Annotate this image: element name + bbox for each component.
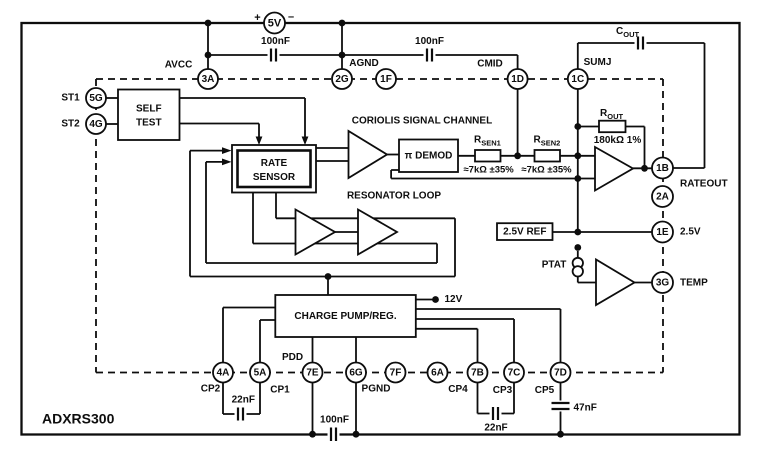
- svg-text:≈7kΩ ±35%: ≈7kΩ ±35%: [521, 164, 572, 175]
- svg-text:7F: 7F: [390, 368, 402, 379]
- terminal 12V: [432, 296, 439, 303]
- wire AGND drop: [341, 23, 343, 70]
- junction ROUT branch: [574, 123, 581, 130]
- wire 1B to riser: [673, 167, 705, 169]
- pin 5A: [250, 363, 270, 383]
- junction ground rail 6G: [353, 431, 360, 438]
- svg-text:6G: 6G: [349, 368, 363, 379]
- block DEMOD: [399, 140, 458, 173]
- pin 3A: [198, 69, 218, 89]
- wire opamp output: [633, 167, 652, 169]
- wire rate sensor bottom right leg: [275, 193, 277, 219]
- pin 1B: [652, 158, 673, 179]
- wire bypass rail: [208, 55, 518, 70]
- svg-text:2G: 2G: [335, 74, 349, 85]
- wire coriolis amp to demod: [387, 154, 399, 156]
- op-amp output stage: [595, 147, 633, 191]
- junction CMID node: [514, 152, 521, 159]
- svg-text:4A: 4A: [217, 368, 230, 379]
- svg-text:3A: 3A: [202, 74, 215, 85]
- wire RATEOUT right riser: [704, 43, 706, 168]
- wire 7B 7C cap loop: [478, 383, 515, 414]
- svg-text:ST1: ST1: [61, 93, 80, 104]
- wire 4A 5A cap loop: [223, 383, 260, 414]
- wire demod feedback stub: [391, 170, 595, 179]
- pin 4G: [86, 114, 106, 134]
- junction opamp output: [641, 165, 648, 172]
- pin 1F: [376, 69, 396, 89]
- capacitor 22nF CP3: [490, 407, 502, 420]
- pin 2A: [652, 186, 673, 207]
- capacitor COUT: [635, 37, 647, 50]
- capacitor 100nF bottom: [328, 428, 340, 442]
- svg-text:1E: 1E: [656, 227, 669, 238]
- junction charge pump feed: [325, 273, 332, 280]
- junction 2.5V node: [574, 229, 581, 236]
- resistor RSEN1: [475, 150, 501, 162]
- pin 4A: [213, 363, 233, 383]
- block SELF TEST: [118, 90, 180, 141]
- svg-text:22nF: 22nF: [484, 423, 507, 434]
- wire rate sensor bottom left leg: [252, 193, 254, 244]
- wire PTAT to temp amp: [578, 251, 596, 283]
- svg-text:+: +: [254, 12, 260, 24]
- wire charge pump to 4A: [223, 308, 275, 363]
- amplifier resonator 2: [358, 210, 397, 255]
- wire 5G to self test: [106, 97, 118, 99]
- svg-text:PTAT: PTAT: [542, 260, 567, 271]
- wire charge pump to 7D: [416, 309, 561, 362]
- wire charge pump feed: [327, 277, 329, 296]
- amplifier coriolis: [349, 131, 388, 178]
- capacitor 22nF CP2-CP1: [235, 408, 247, 421]
- svg-text:CP1: CP1: [270, 385, 290, 396]
- pin 7F: [386, 363, 406, 383]
- wire COUT top: [578, 42, 705, 44]
- wire resonator mid line: [253, 243, 437, 245]
- junction SUMJ node: [574, 152, 581, 159]
- svg-text:TEMP: TEMP: [680, 278, 708, 289]
- wire temp amp output: [635, 282, 653, 284]
- svg-text:CP4: CP4: [448, 384, 468, 395]
- svg-text:SENSOR: SENSOR: [253, 172, 296, 183]
- wire ROUT branch: [578, 127, 645, 169]
- wire into rate sensor upper: [190, 150, 223, 152]
- wire 2.5V REF to 1E: [553, 231, 653, 233]
- wire ST2 path: [179, 124, 259, 138]
- svg-text:PGND: PGND: [362, 384, 391, 395]
- arrow ST2 into rate sensor: [256, 137, 263, 146]
- wire 7E to ground rail: [312, 383, 314, 434]
- svg-text:12V: 12V: [445, 294, 463, 305]
- svg-text:≈7kΩ ±35%: ≈7kΩ ±35%: [463, 164, 514, 175]
- svg-text:ST2: ST2: [61, 119, 80, 130]
- wire CMID drop: [517, 89, 519, 156]
- svg-text:RESONATOR LOOP: RESONATOR LOOP: [347, 191, 441, 202]
- wire AVCC drop: [207, 23, 209, 70]
- svg-text:100nF: 100nF: [320, 415, 349, 426]
- svg-text:–: –: [288, 11, 294, 23]
- wire 12V stub: [416, 299, 433, 301]
- arrow ST1 into rate sensor: [302, 137, 309, 146]
- resistor RSEN2: [535, 150, 561, 162]
- svg-text:PDD: PDD: [282, 352, 303, 363]
- svg-text:7C: 7C: [508, 368, 521, 379]
- wire demod to RSEN1 RSEN2 opamp: [458, 155, 595, 157]
- wire SUMJ column: [577, 89, 579, 233]
- svg-text:5A: 5A: [254, 368, 267, 379]
- pin 6A: [428, 363, 448, 383]
- wire ST1 path: [179, 98, 305, 137]
- amplifier resonator 1: [296, 210, 336, 255]
- junction ground rail 47nF: [557, 431, 564, 438]
- dashed package boundary right: [662, 79, 664, 373]
- wire resonator inner return: [206, 162, 437, 263]
- junction top rail AGND: [339, 20, 346, 27]
- svg-text:100nF: 100nF: [261, 36, 290, 47]
- capacitor C1 100nF: [268, 49, 280, 62]
- svg-text:22nF: 22nF: [232, 395, 255, 406]
- capacitor C2 100nF: [424, 49, 436, 62]
- wire resonator outer return: [190, 151, 455, 277]
- svg-text:CP5: CP5: [535, 385, 555, 396]
- svg-text:7E: 7E: [306, 368, 319, 379]
- wire 7D to ground rail: [560, 383, 562, 434]
- svg-text:π DEMOD: π DEMOD: [405, 151, 453, 162]
- pin 2G: [332, 69, 352, 89]
- block RATE SENSOR: [232, 145, 316, 193]
- svg-text:AGND: AGND: [349, 58, 378, 69]
- svg-text:CP3: CP3: [493, 385, 513, 396]
- pin 7D: [551, 363, 571, 383]
- junction bypass AGND: [339, 52, 346, 59]
- arrow into rate sensor lower: [222, 159, 232, 166]
- svg-text:CHARGE PUMP/REG.: CHARGE PUMP/REG.: [294, 311, 396, 322]
- junction top rail AVCC: [205, 20, 212, 27]
- block 2.5V REF: [497, 223, 553, 240]
- wire charge pump to 7C: [416, 319, 514, 362]
- pin 1E: [652, 222, 673, 243]
- wire charge pump to 7E: [312, 337, 314, 362]
- svg-text:5V: 5V: [268, 18, 282, 30]
- dashed package boundary left: [95, 79, 97, 373]
- pin 7B: [468, 363, 488, 383]
- current source PTAT: [573, 244, 583, 276]
- wire 4G to self test: [106, 123, 118, 125]
- wire rate sensor outputs to coriolis amp: [316, 148, 349, 161]
- svg-text:CORIOLIS SIGNAL CHANNEL: CORIOLIS SIGNAL CHANNEL: [352, 116, 492, 127]
- pin 6G: [346, 363, 366, 383]
- dashed package boundary bottom: [96, 372, 663, 374]
- pin 1C: [568, 69, 588, 89]
- svg-text:ADXRS300: ADXRS300: [42, 411, 115, 427]
- arrow into rate sensor upper: [222, 147, 232, 154]
- svg-text:SUMJ: SUMJ: [584, 57, 612, 68]
- junction ground rail 7E: [309, 431, 316, 438]
- svg-text:AVCC: AVCC: [165, 60, 193, 71]
- svg-text:7B: 7B: [471, 368, 484, 379]
- pin 5G: [86, 88, 106, 108]
- svg-text:6A: 6A: [431, 368, 444, 379]
- amplifier temp: [596, 260, 635, 306]
- svg-text:SELF: SELF: [136, 103, 162, 114]
- svg-text:7D: 7D: [554, 368, 567, 379]
- svg-text:2A: 2A: [656, 192, 669, 203]
- source 5V: [254, 11, 294, 34]
- svg-text:RATE: RATE: [261, 158, 288, 169]
- svg-text:2.5V: 2.5V: [680, 227, 701, 238]
- pin 1D: [508, 69, 528, 89]
- wire into rate sensor lower: [206, 161, 223, 163]
- resistor ROUT: [599, 121, 626, 133]
- svg-text:47nF: 47nF: [574, 403, 597, 414]
- wire resonator upper line: [276, 217, 455, 219]
- svg-text:2.5V REF: 2.5V REF: [503, 226, 546, 237]
- wire charge pump to 6G: [355, 337, 357, 362]
- svg-text:1D: 1D: [511, 74, 524, 85]
- pin 7E: [303, 363, 323, 383]
- svg-text:100nF: 100nF: [415, 36, 444, 47]
- block CHARGE PUMP/REG.: [275, 295, 416, 337]
- wire charge pump to 5A: [260, 320, 275, 362]
- wire triangle1 to triangle2: [335, 231, 358, 233]
- wire 6G to ground rail: [355, 383, 357, 434]
- svg-text:5G: 5G: [89, 93, 103, 104]
- svg-text:4G: 4G: [89, 119, 103, 130]
- junction opamp inv input: [574, 175, 581, 182]
- pin 3G: [652, 272, 673, 293]
- wire SUMJ to COUT: [577, 43, 579, 70]
- svg-text:1C: 1C: [571, 74, 584, 85]
- svg-text:180kΩ 1%: 180kΩ 1%: [594, 135, 642, 146]
- wire charge pump to 7B: [416, 329, 478, 362]
- svg-text:1F: 1F: [380, 74, 392, 85]
- svg-text:CP2: CP2: [201, 384, 221, 395]
- pin 7C: [504, 363, 524, 383]
- dashed package boundary top: [96, 78, 663, 80]
- junction bypass AVCC: [205, 52, 212, 59]
- svg-text:CMID: CMID: [477, 59, 503, 70]
- svg-text:1B: 1B: [656, 163, 669, 174]
- capacitor 47nF: [552, 401, 570, 412]
- svg-text:RATEOUT: RATEOUT: [680, 179, 728, 190]
- svg-text:TEST: TEST: [136, 117, 162, 128]
- svg-text:3G: 3G: [656, 278, 670, 289]
